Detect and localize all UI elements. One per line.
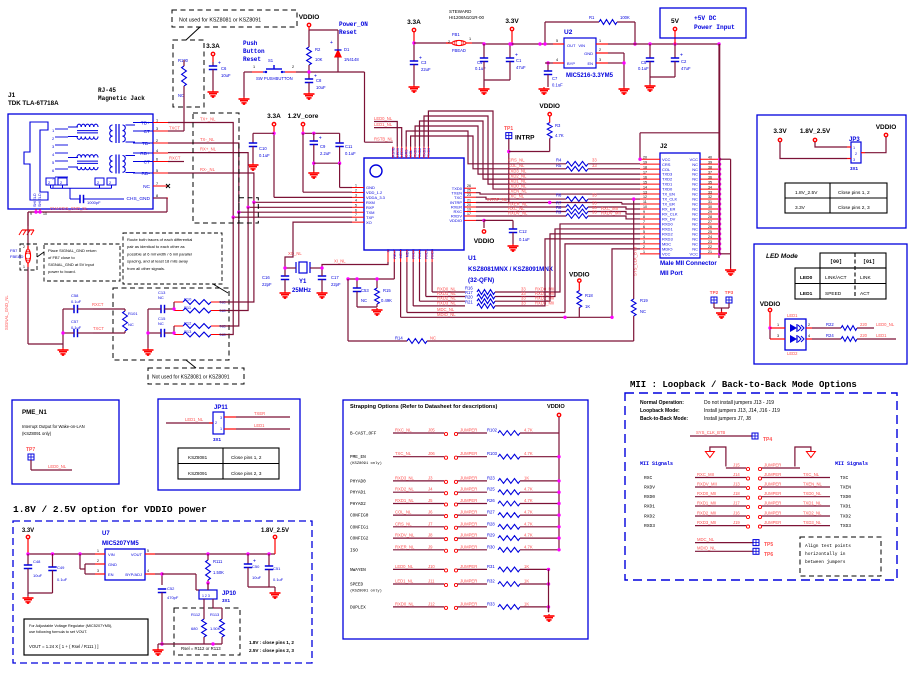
svg-text:40: 40 <box>708 155 712 159</box>
svg-text:JUMPER: JUMPER <box>764 491 781 496</box>
svg-text:1K: 1K <box>524 601 529 606</box>
svg-text:RXD1_NL: RXD1_NL <box>395 498 415 503</box>
svg-text:20: 20 <box>467 203 471 207</box>
svg-text:9: 9 <box>30 212 32 216</box>
svg-text:Close pins 1, 2: Close pins 1, 2 <box>838 190 870 196</box>
svg-text:7: 7 <box>355 213 357 217</box>
svg-text:NC: NC <box>640 309 646 314</box>
svg-text:VCC: VCC <box>662 251 671 256</box>
svg-text:26: 26 <box>467 184 471 188</box>
svg-text:RXD3: RXD3 <box>412 249 416 259</box>
svg-text:35: 35 <box>708 180 712 184</box>
svg-text:3.3V: 3.3V <box>505 18 519 25</box>
svg-text:R29: R29 <box>487 533 495 538</box>
svg-text:33: 33 <box>592 158 597 163</box>
svg-text:TXD1_NL: TXD1_NL <box>803 501 822 506</box>
svg-text:R27: R27 <box>487 510 495 515</box>
svg-text:NC: NC <box>158 321 164 326</box>
svg-text:5: 5 <box>643 230 645 234</box>
svg-text:4: 4 <box>147 569 149 573</box>
svg-text:4: 4 <box>643 235 645 239</box>
svg-text:2.2uF: 2.2uF <box>320 151 331 156</box>
svg-text:LED2: LED2 <box>787 351 798 356</box>
svg-text:1.8V_2.5V: 1.8V_2.5V <box>800 128 831 135</box>
svg-text:J5: J5 <box>428 498 433 503</box>
svg-text:TXER: TXER <box>254 411 265 416</box>
svg-text:JUMPER: JUMPER <box>460 487 477 492</box>
svg-text:Magnetic Jack: Magnetic Jack <box>98 95 145 102</box>
svg-text:R23: R23 <box>487 475 495 480</box>
svg-text:PHYAD0: PHYAD0 <box>350 479 366 484</box>
svg-text:3: 3 <box>220 416 222 420</box>
svg-text:4: 4 <box>808 334 810 338</box>
svg-text:100K: 100K <box>620 15 630 20</box>
svg-text:Power_ON: Power_ON <box>339 21 368 28</box>
svg-text:4.7K: 4.7K <box>524 544 533 549</box>
svg-text:R6: R6 <box>556 193 562 198</box>
svg-text:RXD1_MII: RXD1_MII <box>697 501 716 506</box>
svg-text:(KSZ8091 only): (KSZ8091 only) <box>22 431 52 436</box>
svg-text:LINK/ACT: LINK/ACT <box>825 275 847 281</box>
svg-text:Y1: Y1 <box>299 279 307 285</box>
svg-text:RXD2_NL: RXD2_NL <box>395 487 415 492</box>
svg-text:R18: R18 <box>585 293 593 298</box>
svg-text:C48: C48 <box>33 559 41 564</box>
svg-text:R112: R112 <box>191 612 201 617</box>
svg-text:LED1_NL: LED1_NL <box>395 579 414 584</box>
svg-text:4.7K: 4.7K <box>555 133 564 138</box>
svg-text:3: 3 <box>853 158 855 162</box>
svg-text:VDDIO: VDDIO <box>876 124 897 131</box>
svg-text:C11: C11 <box>345 144 353 149</box>
svg-text:1: 1 <box>599 39 601 43</box>
svg-text:0.49K: 0.49K <box>381 298 392 303</box>
svg-text:8: 8 <box>643 215 645 219</box>
svg-text:4.7K: 4.7K <box>524 428 533 433</box>
svg-text:XO: XO <box>366 220 372 225</box>
svg-text:R31: R31 <box>487 564 495 569</box>
svg-text:RJ-45: RJ-45 <box>98 87 116 94</box>
svg-text:FBEAD: FBEAD <box>452 48 466 53</box>
svg-text:RXD0_NL: RXD0_NL <box>395 601 415 606</box>
svg-text:RXC: RXC <box>644 475 653 481</box>
svg-text:3.3V: 3.3V <box>773 128 787 135</box>
svg-text:J10: J10 <box>428 564 435 569</box>
svg-text:R21: R21 <box>465 299 473 304</box>
svg-text:KSZ8081: KSZ8081 <box>188 455 208 460</box>
svg-text:MII Signals: MII Signals <box>835 461 868 467</box>
svg-text:RXD3: RXD3 <box>644 523 655 529</box>
svg-text:NC: NC <box>158 295 164 300</box>
svg-text:C1: C1 <box>516 58 522 63</box>
svg-text:0.1uF: 0.1uF <box>57 577 68 582</box>
svg-text:LED Mode: LED Mode <box>766 253 798 260</box>
svg-text:31: 31 <box>708 200 712 204</box>
svg-text:JUMPER: JUMPER <box>460 579 477 584</box>
svg-text:TXD3: TXD3 <box>414 148 418 157</box>
svg-text:TXD2_NL: TXD2_NL <box>803 511 822 516</box>
svg-text:C3: C3 <box>421 60 427 65</box>
svg-text:C57: C57 <box>71 319 79 324</box>
svg-text:1: 1 <box>23 265 25 269</box>
svg-text:JUMPER: JUMPER <box>764 511 781 516</box>
svg-text:+: + <box>319 136 322 142</box>
svg-text:Normal Operation:: Normal Operation: <box>640 400 684 406</box>
svg-text:1: 1 <box>97 549 99 553</box>
svg-text:JUMPER: JUMPER <box>460 428 477 433</box>
svg-text:TXD3: TXD3 <box>840 523 851 529</box>
svg-text:C49: C49 <box>57 565 65 570</box>
svg-text:220: 220 <box>860 322 868 327</box>
svg-text:TXC_NL: TXC_NL <box>395 451 412 456</box>
svg-text:J18: J18 <box>733 491 740 496</box>
svg-text:REXT: REXT <box>393 248 397 258</box>
svg-text:KSZ8091: KSZ8091 <box>188 471 208 476</box>
svg-text:(32-QFN): (32-QFN) <box>468 277 494 284</box>
svg-text:RXC_NL: RXC_NL <box>395 428 412 433</box>
svg-text:TXEN: TXEN <box>840 485 851 491</box>
svg-text:Not used for KSZ8081 or KSZ809: Not used for KSZ8081 or KSZ8091 <box>152 375 230 381</box>
svg-text:J14: J14 <box>733 472 740 477</box>
svg-text:37: 37 <box>708 170 712 174</box>
svg-text:STEWARD: STEWARD <box>449 9 472 14</box>
svg-text:JUMPER: JUMPER <box>764 463 781 468</box>
svg-text:1N4148: 1N4148 <box>344 57 359 62</box>
svg-text:MII Port: MII Port <box>660 270 683 277</box>
svg-text:SHIELD: SHIELD <box>38 193 42 207</box>
svg-text:4.7K: 4.7K <box>524 487 533 492</box>
svg-text:TX+_NL: TX+_NL <box>200 117 216 122</box>
svg-text:EN: EN <box>587 61 593 66</box>
svg-text:U2: U2 <box>564 29 573 36</box>
svg-text:LED0: LED0 <box>800 275 813 281</box>
svg-text:3: 3 <box>97 569 99 573</box>
svg-text:5: 5 <box>147 549 149 553</box>
svg-text:R19: R19 <box>640 298 648 303</box>
svg-text:Reset: Reset <box>339 29 357 36</box>
svg-text:S1: S1 <box>268 58 274 63</box>
svg-text:B-CAST_OFF: B-CAST_OFF <box>350 432 377 437</box>
svg-text:R33: R33 <box>487 601 495 606</box>
svg-text:22uF: 22uF <box>421 67 431 72</box>
svg-text:RX-_NL: RX-_NL <box>200 167 216 172</box>
svg-text:TXEN_NL: TXEN_NL <box>803 482 823 487</box>
svg-text:RXD2_MII: RXD2_MII <box>697 511 716 516</box>
svg-text:DUPLEX: DUPLEX <box>350 605 366 610</box>
svg-text:5: 5 <box>355 203 357 207</box>
svg-text:27: 27 <box>708 220 712 224</box>
svg-text:2: 2 <box>97 559 99 563</box>
svg-text:J19: J19 <box>733 520 740 525</box>
svg-text:+: + <box>680 53 683 59</box>
svg-text:12: 12 <box>643 195 647 199</box>
svg-text:MDC: MDC <box>405 249 409 258</box>
svg-text:25: 25 <box>708 230 712 234</box>
svg-text:0.1uF: 0.1uF <box>638 66 649 71</box>
svg-text:VOUT = 1.24 X [ 1 + ( Rsel / R: VOUT = 1.24 X [ 1 + ( Rsel / R111 ) ] <box>29 644 99 649</box>
svg-text:Not used for KSZ8081 or KSZ809: Not used for KSZ8081 or KSZ8091 <box>179 18 261 24</box>
svg-text:R100: R100 <box>178 58 189 63</box>
svg-text:3.3A: 3.3A <box>206 43 220 50</box>
svg-text:4: 4 <box>156 149 158 153</box>
svg-text:RXD0: RXD0 <box>644 494 655 500</box>
svg-text:J2: J2 <box>660 143 668 150</box>
svg-text:1.2V_core: 1.2V_core <box>288 113 319 120</box>
svg-text:J8: J8 <box>428 533 433 538</box>
svg-text:10uF: 10uF <box>33 573 43 578</box>
svg-text:33: 33 <box>521 300 526 305</box>
svg-text:CRS_NL: CRS_NL <box>395 521 412 526</box>
svg-text:0.1uF: 0.1uF <box>259 153 270 158</box>
svg-text:Install jumpers J7, J8: Install jumpers J7, J8 <box>704 416 751 422</box>
svg-text:LED1: LED1 <box>800 291 813 297</box>
svg-text:R30: R30 <box>487 544 495 549</box>
svg-text:FBEAD: FBEAD <box>10 254 23 259</box>
svg-text:LED0: LED0 <box>396 148 400 157</box>
svg-text:CRS: CRS <box>405 149 409 157</box>
svg-text:MIC5216-3.3YM5: MIC5216-3.3YM5 <box>566 73 614 79</box>
svg-text:0.1uF: 0.1uF <box>71 325 82 330</box>
svg-text:2: 2 <box>643 245 645 249</box>
svg-text:TDK TLA-6T718A: TDK TLA-6T718A <box>8 100 59 107</box>
svg-text:C12: C12 <box>519 229 527 234</box>
svg-text:2: 2 <box>292 65 294 69</box>
svg-text:6: 6 <box>156 158 158 162</box>
svg-text:4.7K: 4.7K <box>524 521 533 526</box>
svg-text:C6: C6 <box>221 66 227 71</box>
svg-text:Place SIGNAL_GND return: Place SIGNAL_GND return <box>48 248 96 253</box>
svg-text:OUT: OUT <box>567 43 576 48</box>
svg-text:33: 33 <box>708 190 712 194</box>
svg-text:SIGNAL_GND at 5V input: SIGNAL_GND at 5V input <box>48 262 95 267</box>
svg-text:9: 9 <box>643 210 645 214</box>
svg-text:possible at 6 mil width / 6 mi: possible at 6 mil width / 6 mil parallel <box>127 251 192 256</box>
svg-text:RX+_NL: RX+_NL <box>200 147 217 152</box>
svg-text:J6: J6 <box>428 510 433 515</box>
svg-text:VDDIO: VDDIO <box>539 103 560 110</box>
svg-text:R15: R15 <box>383 288 391 293</box>
svg-text:LED1: LED1 <box>787 313 798 318</box>
svg-text:2: 2 <box>599 48 601 52</box>
svg-text:6: 6 <box>643 225 645 229</box>
svg-text:36: 36 <box>708 175 712 179</box>
svg-text:Push: Push <box>243 40 258 47</box>
svg-text:TXC_NL: TXC_NL <box>508 194 525 199</box>
svg-text:R22: R22 <box>826 322 834 327</box>
svg-text:NC: NC <box>128 322 134 327</box>
svg-text:TX-_NL: TX-_NL <box>200 137 215 142</box>
svg-text:JUMPER: JUMPER <box>460 510 477 515</box>
svg-text:Male MII Connector: Male MII Connector <box>660 260 717 267</box>
svg-text:For Adjustable Voltage Regulat: For Adjustable Voltage Regulator (MIC520… <box>29 624 112 628</box>
svg-text:0.1uF: 0.1uF <box>345 151 356 156</box>
svg-text:TP3: TP3 <box>725 290 734 295</box>
svg-text:Reset: Reset <box>243 56 261 63</box>
svg-text:JUMPER: JUMPER <box>460 521 477 526</box>
svg-text:NC: NC <box>361 298 367 303</box>
svg-text:3.3A: 3.3A <box>407 19 421 26</box>
svg-text:J3: J3 <box>428 475 433 480</box>
svg-text:34: 34 <box>708 185 712 189</box>
svg-text:VDDIO: VDDIO <box>299 14 320 21</box>
svg-text:MDC_NL: MDC_NL <box>697 537 715 542</box>
svg-text:JUMPER: JUMPER <box>460 564 477 569</box>
svg-text:GND: GND <box>108 562 117 567</box>
svg-text:TXCT: TXCT <box>93 326 104 331</box>
svg-text:BYP: BYP <box>567 61 575 66</box>
svg-text:NC: NC <box>430 336 436 341</box>
svg-text:10uF: 10uF <box>252 575 262 580</box>
svg-text:RD-: RD- <box>141 171 150 177</box>
svg-text:TXD2: TXD2 <box>840 514 851 520</box>
svg-text:[01]: [01] <box>863 259 875 265</box>
svg-text:FB7: FB7 <box>10 248 18 253</box>
svg-text:RXCT: RXCT <box>169 156 181 161</box>
svg-text:TXC: TXC <box>454 195 462 200</box>
svg-text:TP5: TP5 <box>764 542 773 548</box>
svg-text:C2: C2 <box>681 59 687 64</box>
svg-text:23: 23 <box>708 240 712 244</box>
svg-text:TD-: TD- <box>142 141 150 147</box>
svg-text:3: 3 <box>643 240 645 244</box>
svg-text:C58: C58 <box>71 293 79 298</box>
svg-text:RXD2: RXD2 <box>418 249 422 259</box>
svg-text:ACT: ACT <box>860 291 870 297</box>
svg-text:RXD1: RXD1 <box>424 249 428 259</box>
svg-text:JUMPER: JUMPER <box>460 475 477 480</box>
svg-text:220: 220 <box>860 333 868 338</box>
svg-text:ISO: ISO <box>350 548 358 553</box>
svg-text:RD+: RD+ <box>140 151 150 157</box>
svg-text:1: 1 <box>355 184 357 188</box>
svg-text:RXD0: RXD0 <box>431 249 435 259</box>
svg-text:C10: C10 <box>259 146 267 151</box>
svg-text:10K: 10K <box>315 57 323 62</box>
svg-text:2.5V : close pins 2, 3: 2.5V : close pins 2, 3 <box>249 648 294 653</box>
svg-text:J1: J1 <box>8 92 16 99</box>
svg-text:1: 1 <box>643 250 645 254</box>
svg-text:R101: R101 <box>128 311 138 316</box>
svg-text:SYS_CLK_BTB: SYS_CLK_BTB <box>696 430 726 435</box>
svg-text:RXC_MII: RXC_MII <box>697 472 714 477</box>
svg-text:JUMPER: JUMPER <box>764 501 781 506</box>
svg-text:CONFIG0: CONFIG0 <box>350 514 369 519</box>
svg-text:JUMPER: JUMPER <box>460 601 477 606</box>
svg-text:Interrupt Output for Wake-on-L: Interrupt Output for Wake-on-LAN <box>22 424 85 429</box>
svg-text:LED0_NL: LED0_NL <box>395 564 414 569</box>
svg-text:TD+: TD+ <box>141 120 150 126</box>
svg-text:TXD0: TXD0 <box>427 148 431 157</box>
svg-text:3: 3 <box>355 193 357 197</box>
svg-text:(KSZ8091 only): (KSZ8091 only) <box>350 461 382 466</box>
svg-text:LED1_NL: LED1_NL <box>185 417 204 422</box>
svg-text:of FB7 close to: of FB7 close to <box>48 255 75 260</box>
svg-text:Power Input: Power Input <box>694 24 735 31</box>
svg-text:1: 1 <box>777 323 779 327</box>
svg-text:1.8V_2.5V: 1.8V_2.5V <box>795 190 818 196</box>
svg-text:PME_N1: PME_N1 <box>22 409 47 416</box>
svg-text:4.7K: 4.7K <box>524 510 533 515</box>
svg-text:24: 24 <box>708 235 712 239</box>
svg-text:use following formula to set V: use following formula to set VOUT. <box>29 630 87 634</box>
svg-text:Close pins 2, 3: Close pins 2, 3 <box>838 205 870 211</box>
svg-text:CT: CT <box>144 159 150 165</box>
svg-text:VDDIO: VDDIO <box>449 218 462 223</box>
svg-text:VIN: VIN <box>578 43 585 48</box>
svg-text:3X1: 3X1 <box>850 166 859 171</box>
svg-text:10uF: 10uF <box>316 85 326 90</box>
svg-text:C52: C52 <box>167 586 175 591</box>
svg-text:LED1: LED1 <box>876 333 887 338</box>
svg-text:47uF: 47uF <box>681 66 691 71</box>
svg-text:J17: J17 <box>733 501 740 506</box>
svg-text:EN: EN <box>108 572 114 577</box>
svg-text:JUMPER: JUMPER <box>460 533 477 538</box>
svg-text:JUMPER: JUMPER <box>460 544 477 549</box>
svg-text:19: 19 <box>467 208 471 212</box>
svg-text:NWAYEN: NWAYEN <box>350 568 366 573</box>
svg-text:3: 3 <box>777 334 779 338</box>
svg-text:TP7: TP7 <box>26 447 35 453</box>
svg-text:Close pins 2, 3: Close pins 2, 3 <box>231 471 262 476</box>
svg-text:RXDV_NL: RXDV_NL <box>395 533 415 538</box>
svg-text:RXD3_NL: RXD3_NL <box>395 475 415 480</box>
svg-text:1K: 1K <box>524 564 529 569</box>
svg-text:LED1: LED1 <box>254 423 265 428</box>
svg-text:RXD1: RXD1 <box>644 504 655 510</box>
svg-text:17: 17 <box>643 170 647 174</box>
svg-text:MII Signals: MII Signals <box>640 461 673 467</box>
svg-text:Button: Button <box>243 48 265 55</box>
svg-text:MDIO: MDIO <box>399 249 403 259</box>
svg-text:10: 10 <box>643 205 647 209</box>
svg-text:2: 2 <box>808 323 810 327</box>
svg-text:CRS_NL: CRS_NL <box>508 158 525 163</box>
svg-text:VCC: VCC <box>690 251 699 256</box>
svg-text:15: 15 <box>643 180 647 184</box>
svg-text:17: 17 <box>467 212 471 216</box>
svg-text:14: 14 <box>643 185 647 189</box>
svg-text:30: 30 <box>708 205 712 209</box>
svg-text:TXD0_NL: TXD0_NL <box>803 491 822 496</box>
svg-text:0.1uF: 0.1uF <box>552 83 563 88</box>
svg-text:R102: R102 <box>487 428 498 433</box>
svg-text:R26: R26 <box>487 498 495 503</box>
svg-text:J15: J15 <box>733 463 740 468</box>
svg-text:1: 1 <box>853 146 855 150</box>
svg-text:XI_NL: XI_NL <box>334 259 346 264</box>
svg-text:1 2 3: 1 2 3 <box>202 594 210 598</box>
svg-text:32: 32 <box>708 195 712 199</box>
svg-text:3X1: 3X1 <box>222 598 231 603</box>
svg-text:C5: C5 <box>641 60 647 65</box>
svg-text:2: 2 <box>355 188 357 192</box>
svg-text:TXD2: TXD2 <box>418 148 422 157</box>
svg-text:R28: R28 <box>487 521 495 526</box>
svg-text:1K: 1K <box>585 304 590 309</box>
svg-text:1000pF: 1000pF <box>87 200 101 205</box>
svg-text:RXER_NL: RXER_NL <box>395 544 415 549</box>
svg-text:0.1uF: 0.1uF <box>519 237 530 242</box>
svg-text:25: 25 <box>467 189 471 193</box>
svg-text:7: 7 <box>643 220 645 224</box>
svg-text:FB1: FB1 <box>452 32 460 37</box>
svg-text:U1: U1 <box>468 255 477 262</box>
svg-text:LINK: LINK <box>860 275 871 281</box>
svg-text:C9: C9 <box>320 144 326 149</box>
svg-text:R111: R111 <box>213 559 223 564</box>
svg-text:VDDIO: VDDIO <box>474 238 495 245</box>
